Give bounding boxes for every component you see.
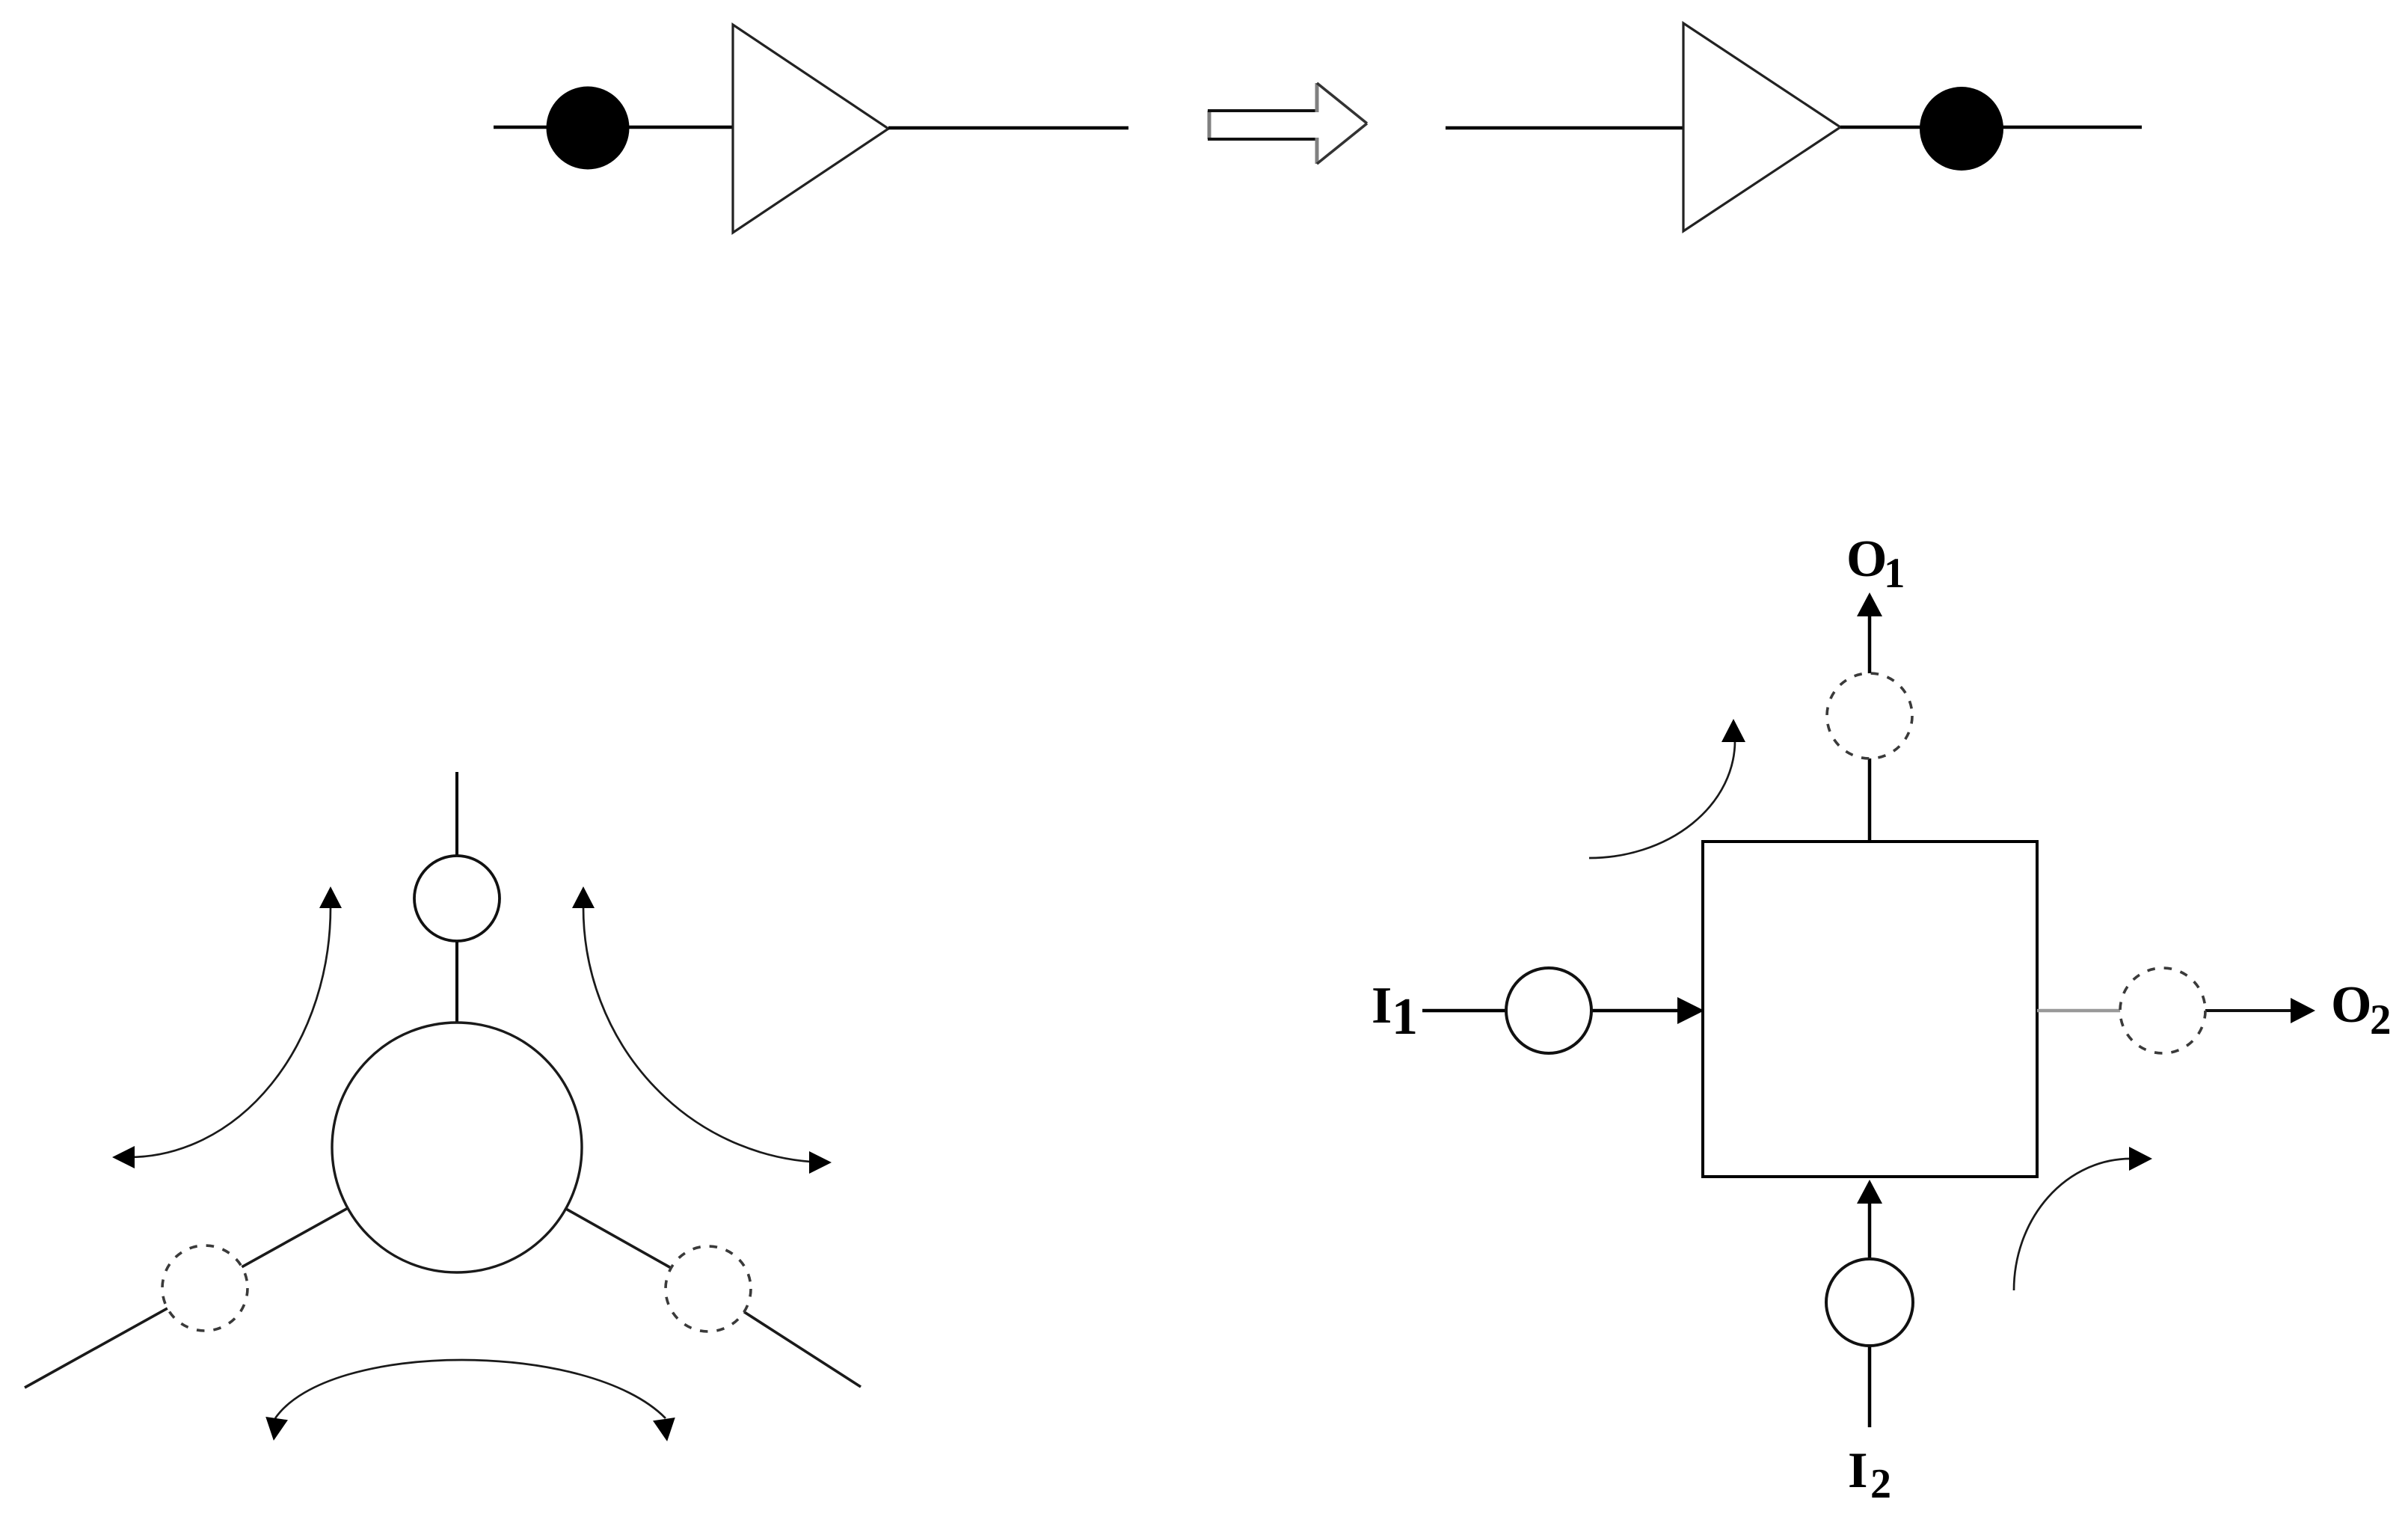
label I2 [1848,1441,1891,1507]
arrowhead I2 [1857,1180,1882,1204]
node v (gate circle) [332,1023,582,1272]
retime move arrow left (double headed) [112,886,342,1168]
wire O2 right segment [2180,1009,2291,1012]
arrowhead O1 [1857,592,1882,616]
tail left vertical edge [1208,111,1211,139]
retime move arrow bottom (double headed) [262,1360,678,1443]
wire I2 [1868,1203,1872,1427]
label I1 [1372,977,1418,1046]
tail bottom edge [1208,138,1317,141]
buffer gate G2 [1683,23,1840,231]
moved register r3 (dashed) on edge E3 [666,1246,751,1332]
wire W2 output of gate G1 [888,126,1128,130]
svg-text:O: O [2331,976,2371,1034]
tail top edge [1208,109,1317,112]
register R1 (black dot before gate) [547,87,630,170]
wire W3 input of right circuit [1446,126,1683,130]
retime move arrow top-left of block [1589,719,1745,858]
wire E1 top edge [455,772,458,1023]
moved register c2 (dashed) on O1 [1827,673,1912,759]
arrowhead O2 [2291,998,2315,1023]
register r1 on edge E1 [414,856,500,941]
svg-text:O: O [1846,530,1887,588]
wire W4 output of gate G2 [1840,126,2142,129]
register R2 (black dot after gate) [1920,87,2003,171]
head bottom notch vertical [1315,138,1319,164]
head top diagonal [1317,83,1367,123]
wire E2 (node to lower-left) [25,1147,457,1388]
head top notch vertical [1315,83,1319,112]
svg-text:2: 2 [2370,996,2392,1044]
transform block arrow (retiming move) [1208,83,1367,164]
wire E3 upper segment (node to dashed register) [457,1147,708,1289]
svg-text:1: 1 [1392,988,1418,1046]
svg-text:I: I [1372,977,1392,1035]
moved register c3 (dashed) on O2 [2120,968,2205,1053]
wire W1 input of left circuit [494,126,733,129]
combinational block B [1703,842,2037,1177]
register c1 on I1 [1506,968,1591,1053]
label O1 [1846,530,1905,597]
svg-text:I: I [1848,1441,1867,1498]
wire E3 lower segment [708,1289,861,1387]
wire O2 gray segment (block to dashed register) [2037,1009,2146,1013]
arrowhead I1 [1677,997,1704,1024]
moved register r2 (dashed) on edge E2 [162,1245,248,1331]
svg-text:2: 2 [1870,1461,1891,1507]
buffer gate G1 [733,25,888,233]
head bottom diagonal [1317,123,1367,164]
retime move arrow right (double headed) [572,886,832,1174]
register c4 on I2 [1826,1259,1913,1346]
label O2 [2331,976,2392,1044]
retime move arrow bottom-right of block [2014,1147,2152,1290]
wire O1 [1868,615,1872,842]
wire I1 [1422,1009,1680,1013]
svg-text:1: 1 [1884,550,1905,597]
